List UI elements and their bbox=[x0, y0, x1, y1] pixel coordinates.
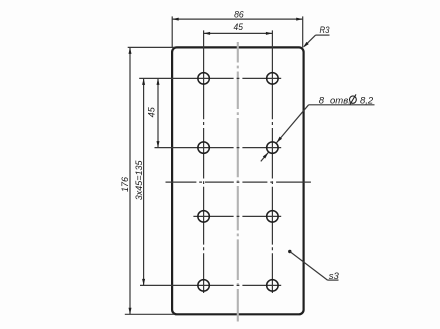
holes callout lower arrow bbox=[263, 152, 268, 158]
dimension 45 left line bbox=[157, 78, 159, 147]
svg-text:86: 86 bbox=[234, 9, 244, 20]
holes callout diameter symbol bbox=[350, 94, 357, 104]
hole B3 bbox=[267, 211, 279, 223]
hole A1 bbox=[198, 73, 210, 85]
dimension 45 left arrow bottom bbox=[157, 141, 160, 148]
svg-text:3x45=135: 3x45=135 bbox=[134, 160, 145, 200]
left column centerline bbox=[203, 30, 205, 293]
s3 leader bbox=[290, 252, 328, 281]
holes callout upper arrow bbox=[277, 137, 282, 143]
hole A3 bbox=[198, 211, 210, 223]
svg-text:176: 176 bbox=[120, 176, 131, 192]
hole B2 bbox=[267, 142, 279, 154]
R3 shelf bbox=[316, 34, 330, 36]
dimension 176 extension line bottom bbox=[125, 313, 175, 315]
row 4 centerline bbox=[140, 284, 281, 286]
dimension 45 top arrow right bbox=[266, 32, 273, 35]
dimension 45 top arrow left bbox=[204, 32, 211, 35]
dimension 86 extension line left bbox=[171, 16, 173, 47]
s3 shelf bbox=[328, 279, 339, 281]
dimension 86 arrow left bbox=[172, 18, 179, 21]
right column centerline bbox=[271, 30, 273, 293]
dimension 3x45=135 arrow bottom bbox=[142, 279, 145, 286]
svg-text:s3: s3 bbox=[329, 271, 340, 282]
hole A2 bbox=[198, 142, 210, 154]
s3 leader dot bbox=[288, 250, 291, 253]
central vertical centerline bbox=[237, 42, 239, 322]
holes callout leader lower segment bbox=[261, 152, 268, 161]
holes callout shelf bbox=[309, 104, 375, 106]
dimension 176 arrow bottom bbox=[129, 308, 132, 315]
dimension 176 arrow top bbox=[129, 47, 132, 54]
dimension 3x45=135 line bbox=[143, 78, 145, 285]
svg-text:45: 45 bbox=[146, 107, 157, 118]
row 3 centerline bbox=[193, 215, 281, 217]
hole B1 bbox=[267, 73, 279, 85]
dimension 86 arrow right bbox=[296, 18, 303, 21]
svg-text:R3: R3 bbox=[320, 25, 331, 36]
dimension 86 extension line right bbox=[302, 16, 304, 47]
central horizontal centerline bbox=[166, 181, 311, 183]
dimension 3x45=135 arrow top bbox=[142, 78, 145, 85]
hole A4 bbox=[198, 280, 210, 292]
R3 leader arrow bbox=[303, 42, 309, 48]
row 1 centerline bbox=[139, 77, 281, 79]
dimension 176 line bbox=[129, 47, 131, 314]
svg-text:8: 8 bbox=[319, 95, 325, 106]
R3 leader bbox=[304, 35, 315, 46]
dimension 176 extension line top bbox=[128, 46, 175, 48]
hole B4 bbox=[267, 280, 279, 292]
svg-text:отв.: отв. bbox=[330, 95, 351, 106]
svg-text:45: 45 bbox=[234, 22, 244, 33]
dimension 45 top line bbox=[204, 32, 273, 34]
dimension 86 line bbox=[172, 18, 303, 20]
dimension 45 left arrow top bbox=[157, 78, 160, 85]
row 2 centerline bbox=[155, 147, 282, 149]
plate outline bbox=[172, 47, 304, 314]
svg-text:8,2: 8,2 bbox=[360, 95, 374, 106]
holes callout leader upper segment bbox=[277, 105, 309, 143]
